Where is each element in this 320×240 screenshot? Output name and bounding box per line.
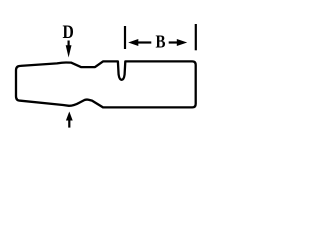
dimension arrow D (down, pointing at top crest) [66,41,72,58]
dimension arrow (up, pointing at bottom edge) [66,112,73,128]
svg-text:D: D [63,22,74,43]
dimension arrow B left [128,39,151,46]
dimension arrow B right [169,39,188,46]
part outline [16,61,196,107]
extension line right (B) [195,24,197,50]
svg-text:B: B [156,32,166,52]
extension line left (B) [124,26,126,49]
